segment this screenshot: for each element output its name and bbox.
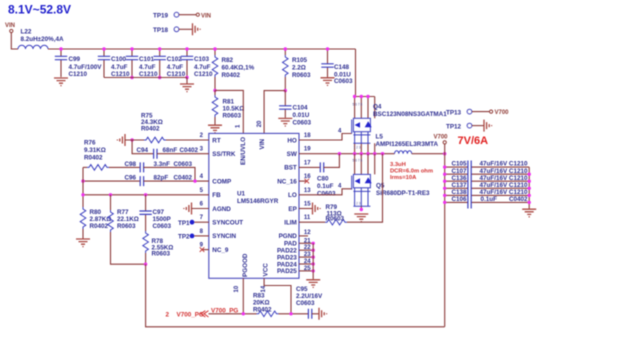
svg-text:R0402: R0402 bbox=[90, 223, 109, 230]
svg-text:C100: C100 bbox=[111, 56, 127, 63]
svg-text:0.1uF: 0.1uF bbox=[481, 196, 498, 203]
svg-text:R83: R83 bbox=[253, 293, 265, 300]
wire cap return bus bbox=[104, 78, 187, 84]
svg-text:R0603: R0603 bbox=[292, 72, 311, 79]
wire VCC bbox=[264, 278, 291, 314]
svg-text:SiR680DP-T1-RE3: SiR680DP-T1-RE3 bbox=[376, 190, 430, 197]
svg-text:3: 3 bbox=[200, 147, 204, 153]
wire Q5 source to ground bbox=[360, 206, 362, 209]
svg-text:4.7uF: 4.7uF bbox=[139, 64, 156, 71]
svg-text:47uF/16V C1210: 47uF/16V C1210 bbox=[480, 182, 528, 189]
svg-text:C0603: C0603 bbox=[174, 161, 193, 168]
svg-text:C0402: C0402 bbox=[180, 147, 199, 154]
svg-text:C138: C138 bbox=[452, 189, 468, 196]
svg-text:8.2uH±20%,4A: 8.2uH±20%,4A bbox=[21, 36, 64, 43]
capacitor C96 bbox=[83, 180, 140, 182]
svg-text:R82: R82 bbox=[222, 57, 234, 64]
svg-text:NC_9: NC_9 bbox=[212, 247, 229, 254]
svg-text:68nF: 68nF bbox=[163, 147, 178, 154]
svg-text:3.3nF: 3.3nF bbox=[154, 161, 171, 168]
wire left compensation bus bbox=[82, 167, 84, 207]
wire FB row bbox=[83, 194, 209, 196]
svg-text:4.7uF: 4.7uF bbox=[167, 64, 184, 71]
svg-text:R0603: R0603 bbox=[152, 251, 171, 258]
capacitor C100 bbox=[103, 49, 105, 78]
ground bbox=[54, 78, 68, 86]
svg-text:3.3uH: 3.3uH bbox=[390, 162, 406, 168]
svg-text:EN/UVLO: EN/UVLO bbox=[240, 137, 247, 165]
resistor R77 bbox=[110, 195, 112, 210]
svg-text:15: 15 bbox=[304, 202, 311, 208]
svg-text:4.7uF: 4.7uF bbox=[111, 64, 128, 71]
output capacitor bank C105 C107 C136 C137 C138 C106 bbox=[445, 167, 530, 209]
wire to VIN pin bbox=[264, 91, 285, 134]
svg-text:C0402: C0402 bbox=[509, 196, 528, 203]
svg-text:19: 19 bbox=[304, 147, 311, 153]
svg-text:SW: SW bbox=[287, 151, 297, 158]
svg-text:VCC: VCC bbox=[262, 263, 269, 277]
svg-text:R76: R76 bbox=[84, 139, 96, 146]
svg-text:AMPI1265EL3R3MTA: AMPI1265EL3R3MTA bbox=[376, 141, 439, 148]
svg-text:9.31KΩ: 9.31KΩ bbox=[84, 147, 106, 154]
svg-text:11: 11 bbox=[304, 215, 311, 221]
svg-text:PAD25: PAD25 bbox=[277, 268, 297, 275]
svg-text:FB: FB bbox=[212, 192, 221, 199]
svg-text:47uF/16V C1210: 47uF/16V C1210 bbox=[480, 168, 528, 175]
capacitor C95 bbox=[308, 309, 311, 319]
svg-text:C0603: C0603 bbox=[334, 78, 353, 85]
wire bus corner down to Q4 drain bbox=[355, 49, 357, 97]
ground bbox=[321, 78, 335, 86]
ground bbox=[313, 203, 321, 215]
svg-text:7: 7 bbox=[200, 215, 204, 221]
svg-text:10.5KΩ: 10.5KΩ bbox=[223, 105, 245, 112]
svg-text:5 6 7 8: 5 6 7 8 bbox=[353, 103, 363, 107]
svg-text:4.7uF/100V: 4.7uF/100V bbox=[69, 64, 103, 71]
svg-text:C148: C148 bbox=[334, 64, 350, 71]
svg-text:V700_PG: V700_PG bbox=[177, 311, 204, 318]
svg-text:C98: C98 bbox=[125, 161, 137, 168]
ground bbox=[208, 125, 222, 133]
capacitor C101 bbox=[131, 49, 133, 78]
svg-text:BST: BST bbox=[284, 165, 297, 172]
svg-text:C104: C104 bbox=[293, 104, 309, 111]
svg-text:LM5146RGYR: LM5146RGYR bbox=[237, 198, 279, 205]
svg-text:R80: R80 bbox=[90, 209, 102, 216]
ground bbox=[354, 214, 368, 222]
svg-text:RT: RT bbox=[212, 137, 221, 144]
svg-text:5: 5 bbox=[200, 188, 204, 194]
svg-text:TP13: TP13 bbox=[446, 109, 462, 116]
svg-text:C101: C101 bbox=[139, 56, 155, 63]
svg-text:Q4: Q4 bbox=[373, 103, 382, 110]
svg-text:R77: R77 bbox=[117, 209, 129, 216]
svg-text:C97: C97 bbox=[153, 209, 165, 216]
resistor R105 bbox=[284, 49, 286, 91]
svg-text:BSC123N08NS3GATMA1: BSC123N08NS3GATMA1 bbox=[373, 111, 447, 118]
svg-text:1 2 3: 1 2 3 bbox=[354, 145, 361, 149]
ground bbox=[522, 209, 536, 217]
svg-text:C99: C99 bbox=[69, 56, 81, 63]
svg-text:2: 2 bbox=[166, 311, 170, 318]
svg-text:C1210: C1210 bbox=[69, 71, 88, 78]
svg-text:SYNCOUT: SYNCOUT bbox=[212, 220, 243, 227]
svg-text:TP12: TP12 bbox=[446, 123, 462, 130]
svg-text:6: 6 bbox=[200, 202, 204, 208]
svg-text:AGND: AGND bbox=[212, 206, 231, 213]
svg-text:L22: L22 bbox=[21, 29, 32, 36]
capacitor C99 bbox=[60, 49, 62, 77]
wire SW rail bbox=[299, 153, 395, 155]
capacitor C94 bbox=[132, 140, 154, 154]
svg-text:C94: C94 bbox=[137, 147, 149, 154]
transistor Q5 bbox=[355, 154, 375, 175]
svg-text:18: 18 bbox=[304, 133, 311, 139]
capacitor C104 bbox=[284, 91, 286, 118]
resistor R78 bbox=[143, 231, 149, 253]
svg-text:C96: C96 bbox=[125, 174, 137, 181]
ground bbox=[180, 84, 194, 92]
svg-text:C137: C137 bbox=[452, 182, 468, 189]
svg-text:C80: C80 bbox=[317, 175, 329, 182]
svg-text:4: 4 bbox=[338, 129, 342, 135]
resistor R76 bbox=[83, 166, 87, 168]
svg-text:COMP: COMP bbox=[212, 178, 231, 185]
resistor R75 bbox=[144, 137, 166, 143]
svg-text:R81: R81 bbox=[223, 98, 235, 105]
svg-text:EP: EP bbox=[288, 206, 296, 213]
svg-text:U1: U1 bbox=[237, 191, 246, 198]
svg-text:C102: C102 bbox=[167, 56, 183, 63]
ground bbox=[484, 120, 492, 132]
svg-text:C0603: C0603 bbox=[296, 300, 315, 307]
svg-text:VIN: VIN bbox=[259, 139, 266, 150]
svg-text:47uF/16V C1210: 47uF/16V C1210 bbox=[480, 175, 528, 182]
svg-text:C0402: C0402 bbox=[174, 174, 193, 181]
svg-text:SYNCIN: SYNCIN bbox=[212, 233, 236, 240]
svg-text:60.4KΩ,1%: 60.4KΩ,1% bbox=[222, 65, 255, 72]
svg-text:4: 4 bbox=[200, 174, 204, 180]
svg-text:TP19: TP19 bbox=[153, 13, 169, 20]
svg-text:0.1uF: 0.1uF bbox=[317, 183, 334, 190]
svg-text:C0603: C0603 bbox=[317, 190, 336, 197]
svg-text:47uF/16V C1210: 47uF/16V C1210 bbox=[480, 189, 528, 196]
node RT bbox=[130, 138, 133, 141]
capacitor C102 bbox=[159, 49, 161, 78]
svg-text:V700: V700 bbox=[434, 134, 449, 140]
transistor Q4 bbox=[355, 97, 375, 154]
svg-text:C103: C103 bbox=[194, 56, 210, 63]
svg-text:C0603: C0603 bbox=[153, 223, 172, 230]
svg-text:7V/6A: 7V/6A bbox=[458, 135, 489, 147]
svg-text:ILIM: ILIM bbox=[284, 220, 297, 227]
svg-text:20: 20 bbox=[257, 120, 263, 127]
svg-text:8: 8 bbox=[200, 229, 204, 235]
svg-text:PGOOD: PGOOD bbox=[242, 253, 249, 277]
wire to EN/UVLO bbox=[215, 90, 243, 133]
svg-text:82pF: 82pF bbox=[154, 174, 169, 181]
svg-text:12: 12 bbox=[304, 230, 311, 236]
wire VIN bus bbox=[48, 48, 356, 50]
svg-text:10: 10 bbox=[234, 285, 240, 292]
svg-text:0.01U: 0.01U bbox=[293, 112, 310, 119]
ground AGND pin bbox=[184, 203, 192, 215]
ground bbox=[76, 239, 90, 247]
svg-text:2: 2 bbox=[200, 133, 204, 139]
svg-text:VIN: VIN bbox=[201, 13, 211, 19]
svg-text:C105: C105 bbox=[452, 161, 468, 168]
svg-text:NC_16: NC_16 bbox=[277, 178, 297, 185]
svg-text:R0603: R0603 bbox=[117, 223, 136, 230]
ground for RT/SS network bbox=[117, 134, 125, 146]
svg-text:HO: HO bbox=[287, 137, 297, 144]
svg-text:R0402: R0402 bbox=[141, 126, 160, 133]
svg-text:C136: C136 bbox=[452, 175, 468, 182]
resistor R79 (ILIM) bbox=[299, 221, 325, 223]
svg-text:1 2 3: 1 2 3 bbox=[354, 202, 361, 206]
IC U1 LM5146RGYR buck controller bbox=[209, 133, 299, 278]
svg-text:C95: C95 bbox=[296, 286, 308, 293]
svg-text:DCR=6.0m ohm: DCR=6.0m ohm bbox=[390, 169, 433, 175]
wire PGOOD net bbox=[209, 313, 257, 315]
svg-text:Q5: Q5 bbox=[376, 182, 385, 189]
svg-text:V700: V700 bbox=[495, 110, 510, 116]
svg-text:17: 17 bbox=[304, 160, 311, 166]
svg-text:TP1: TP1 bbox=[178, 220, 190, 227]
node feedback sense bbox=[144, 263, 147, 266]
wire HO to Q4 gate bbox=[299, 134, 352, 141]
svg-text:14: 14 bbox=[261, 285, 267, 292]
resistor R83 bbox=[257, 311, 279, 317]
svg-text:SS/TRK: SS/TRK bbox=[212, 151, 236, 158]
svg-text:5 6 7 8: 5 6 7 8 bbox=[353, 159, 363, 163]
resistor R80 bbox=[80, 207, 86, 229]
svg-text:Irms=10A: Irms=10A bbox=[390, 175, 417, 181]
ground bbox=[193, 23, 201, 35]
wire PAD ground bus bbox=[312, 243, 314, 279]
svg-text:VIN: VIN bbox=[5, 23, 15, 29]
wire LO to Q5 gate bbox=[299, 189, 352, 195]
svg-text:R0402: R0402 bbox=[222, 72, 241, 79]
svg-text:PGND: PGND bbox=[279, 233, 298, 240]
wire bbox=[125, 139, 144, 141]
resistor R82 bbox=[214, 49, 216, 90]
svg-text:47uF/16V C1210: 47uF/16V C1210 bbox=[480, 161, 528, 168]
ground bbox=[319, 308, 327, 320]
svg-text:C106: C106 bbox=[452, 196, 468, 203]
svg-text:13: 13 bbox=[304, 188, 311, 194]
svg-text:4: 4 bbox=[338, 184, 342, 190]
capacitor C80 (BST) bbox=[299, 166, 320, 168]
svg-text:R0402: R0402 bbox=[84, 154, 103, 161]
capacitor C98 bbox=[140, 162, 143, 172]
svg-text:8.1V~52.8V: 8.1V~52.8V bbox=[8, 3, 71, 17]
wire bbox=[11, 33, 18, 49]
capacitor C97 bbox=[145, 195, 147, 231]
inductor L22 bbox=[18, 45, 48, 49]
ground bbox=[306, 280, 320, 288]
svg-text:R0603: R0603 bbox=[223, 112, 242, 119]
svg-text:TP18: TP18 bbox=[153, 27, 169, 34]
resistor R81 bbox=[214, 90, 216, 124]
svg-text:TP2: TP2 bbox=[178, 234, 190, 241]
svg-text:4.7uF: 4.7uF bbox=[194, 64, 211, 71]
svg-text:C1210: C1210 bbox=[194, 71, 213, 78]
capacitor C148 bbox=[327, 49, 329, 77]
svg-text:L5: L5 bbox=[376, 133, 384, 140]
svg-text:20KΩ: 20KΩ bbox=[253, 300, 270, 307]
wire to output bbox=[412, 153, 445, 155]
svg-text:2.2U/16V: 2.2U/16V bbox=[296, 293, 323, 300]
inductor L5 bbox=[395, 151, 412, 154]
svg-text:R0402: R0402 bbox=[253, 307, 272, 314]
ground bbox=[278, 118, 292, 126]
svg-text:C0603: C0603 bbox=[293, 120, 312, 127]
svg-text:LO: LO bbox=[288, 192, 297, 199]
svg-text:C107: C107 bbox=[452, 168, 468, 175]
svg-text:1: 1 bbox=[236, 124, 242, 128]
svg-text:R105: R105 bbox=[292, 57, 308, 64]
wire sense loop bbox=[146, 264, 445, 327]
capacitor C103 bbox=[186, 49, 188, 78]
svg-text:R0603: R0603 bbox=[326, 216, 345, 223]
svg-text:2.2Ω: 2.2Ω bbox=[292, 65, 306, 72]
